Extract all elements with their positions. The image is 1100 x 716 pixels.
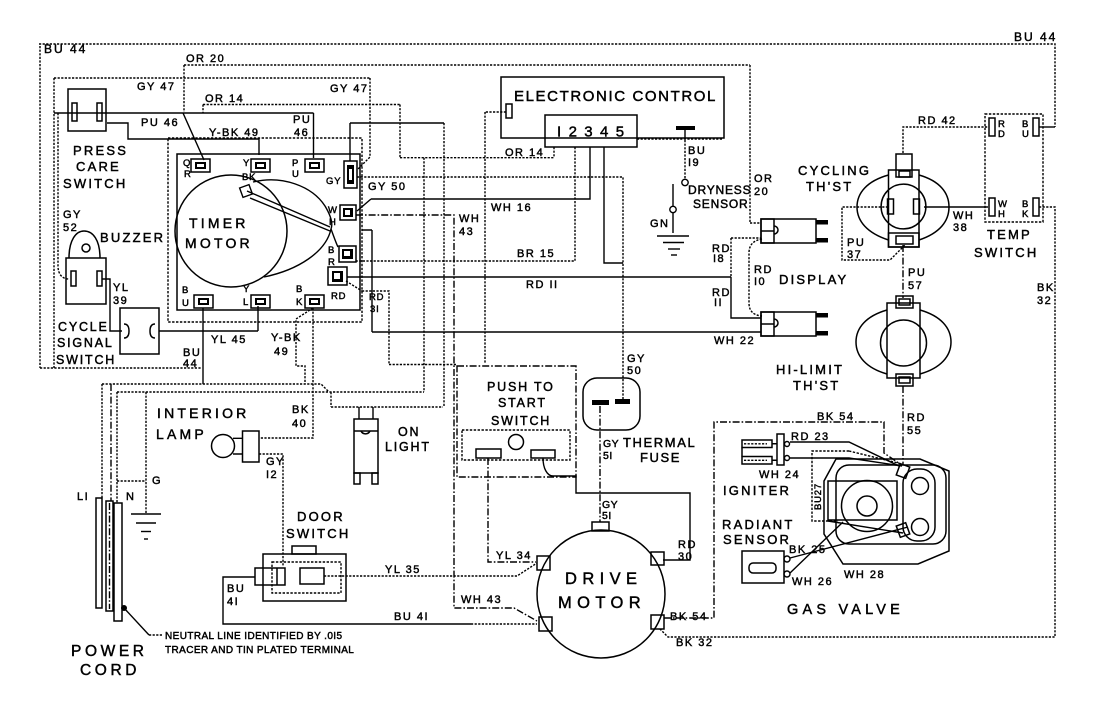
svg-text:PUSH TO: PUSH TO — [487, 380, 555, 394]
wire GY 51 — [599, 406, 601, 522]
svg-text:B: B — [296, 284, 303, 295]
wire left border BU44 — [40, 46, 202, 368]
svg-text:W: W — [328, 205, 338, 216]
wire RD 30 — [543, 458, 690, 560]
svg-text:L: L — [243, 297, 249, 308]
svg-text:LI: LI — [77, 491, 89, 503]
electronic control connector box — [545, 115, 637, 147]
gas valve outer body — [824, 459, 949, 564]
gas valve coil — [842, 481, 893, 532]
svg-text:WH 43: WH 43 — [461, 594, 502, 606]
svg-text:RD 42: RD 42 — [918, 115, 957, 127]
cycling thermostat — [857, 154, 949, 247]
svg-text:PU: PU — [293, 114, 311, 126]
ground GN — [657, 236, 689, 255]
press care switch box — [68, 89, 106, 131]
wire pin2 BR 15 — [356, 147, 575, 261]
svg-text:ELECTRONIC CONTROL: ELECTRONIC CONTROL — [514, 88, 717, 105]
svg-text:OR 14: OR 14 — [505, 147, 544, 159]
svg-text:SENSOR: SENSOR — [723, 532, 791, 547]
svg-text:GY: GY — [603, 438, 619, 450]
svg-text:Y-BK: Y-BK — [271, 332, 302, 344]
svg-text:THERMAL: THERMAL — [623, 435, 696, 450]
svg-text:INTERIOR: INTERIOR — [157, 405, 250, 421]
svg-text:WH 22: WH 22 — [714, 335, 755, 347]
timer terminal B/K — [305, 295, 324, 308]
temp switch box — [985, 114, 1043, 222]
coil dotted box BU27 — [812, 451, 902, 521]
wire WH 43 vertical — [356, 215, 537, 621]
radiant sensor — [742, 551, 790, 583]
svg-text:BU 44: BU 44 — [1014, 30, 1057, 44]
svg-text:RD: RD — [369, 292, 384, 303]
svg-text:U: U — [1022, 129, 1030, 140]
wire GY 52 — [58, 113, 69, 279]
wire BU 44 from B/U terminal — [202, 308, 204, 384]
wire YL 35 — [324, 563, 537, 576]
svg-text:LAMP: LAMP — [156, 426, 207, 442]
svg-text:SENSOR: SENSOR — [693, 197, 748, 211]
timer terminal B/R — [339, 246, 356, 262]
svg-text:OR: OR — [754, 173, 774, 185]
svg-text:YL 35: YL 35 — [385, 564, 421, 576]
svg-text:SWITCH: SWITCH — [491, 414, 551, 428]
wire ground bus y392 — [117, 391, 424, 393]
wire GY 12 — [259, 454, 283, 566]
timer terminal GY — [344, 161, 357, 188]
wire YL 45 — [159, 306, 258, 331]
timer terminal Q/R — [191, 159, 210, 172]
svg-text:5I: 5I — [603, 450, 613, 462]
svg-text:GY 47: GY 47 — [137, 81, 176, 93]
svg-text:CYCLE: CYCLE — [58, 320, 109, 334]
svg-text:MOTOR: MOTOR — [558, 594, 646, 612]
wire on-light bus — [331, 392, 443, 407]
svg-text:I8: I8 — [713, 253, 725, 265]
svg-text:BK 54: BK 54 — [670, 611, 707, 623]
svg-text:37: 37 — [847, 249, 862, 261]
wire BU 19 — [684, 140, 686, 179]
hi-limit thermostat — [856, 296, 951, 386]
svg-text:GN: GN — [650, 218, 670, 230]
svg-text:DISPLAY: DISPLAY — [779, 272, 848, 287]
svg-text:DOOR: DOOR — [297, 509, 345, 524]
svg-text:RD: RD — [907, 412, 926, 424]
svg-text:44: 44 — [183, 358, 198, 370]
wire Y-BK 49 top — [107, 123, 259, 155]
svg-text:YL 34: YL 34 — [496, 550, 532, 562]
cycle signal switch box — [120, 308, 159, 354]
svg-text:BK: BK — [242, 172, 256, 183]
timer motor circle — [175, 175, 287, 287]
svg-text:BU 44: BU 44 — [44, 42, 87, 56]
svg-text:K: K — [296, 297, 303, 308]
wire neutral bus y384 — [102, 384, 329, 392]
interior lamp — [212, 431, 260, 462]
svg-text:B: B — [328, 245, 335, 256]
svg-text:WH 16: WH 16 — [491, 202, 532, 214]
svg-text:FUSE: FUSE — [640, 450, 681, 465]
svg-text:NEUTRAL LINE IDENTIFIED BY .0I: NEUTRAL LINE IDENTIFIED BY .0I5 — [165, 631, 342, 642]
svg-text:K: K — [1022, 209, 1029, 220]
svg-text:CARE: CARE — [76, 159, 121, 174]
svg-text:BU: BU — [688, 145, 706, 157]
wire RD 10 bracket — [749, 239, 762, 316]
timer terminal RD — [328, 267, 347, 285]
wire BU 41 — [223, 577, 471, 624]
gas valve inner body — [836, 465, 946, 544]
svg-text:32: 32 — [1037, 295, 1052, 307]
svg-text:DRIVE: DRIVE — [565, 570, 642, 588]
wire RD 42 — [903, 127, 988, 153]
svg-text:OR 20: OR 20 — [186, 53, 225, 65]
svg-text:OR 14: OR 14 — [205, 93, 244, 105]
temp switch terminal RD — [989, 118, 1006, 140]
svg-text:I2345: I2345 — [557, 124, 632, 141]
svg-text:50: 50 — [627, 365, 642, 377]
svg-text:4I: 4I — [227, 596, 239, 608]
svg-text:I0: I0 — [754, 276, 766, 288]
wire RD 23 — [790, 442, 899, 466]
svg-text:TRACER AND TIN PLATED TERMINAL: TRACER AND TIN PLATED TERMINAL — [165, 645, 354, 656]
svg-text:BUZZER: BUZZER — [100, 230, 165, 245]
wire YL 34 — [488, 458, 536, 562]
wire PU 57 — [902, 245, 904, 298]
svg-text:U: U — [292, 169, 300, 180]
svg-text:I9: I9 — [688, 157, 700, 169]
drive motor — [537, 522, 665, 658]
gas valve solenoid capsule — [896, 464, 935, 541]
electronic control box — [501, 77, 724, 138]
door switch — [255, 546, 346, 601]
timer terminal W/H — [340, 205, 356, 220]
wire feed drop x444 — [443, 123, 445, 407]
svg-text:LIGHT: LIGHT — [385, 440, 431, 454]
svg-text:YL 45: YL 45 — [211, 334, 247, 346]
svg-text:55: 55 — [907, 425, 922, 437]
svg-text:RD: RD — [754, 264, 773, 276]
svg-text:BK: BK — [292, 404, 310, 416]
svg-text:BU: BU — [227, 583, 245, 595]
svg-text:SIGNAL: SIGNAL — [57, 336, 114, 350]
wire WH 28 — [828, 521, 903, 533]
timer terminal P/U — [305, 159, 324, 172]
svg-text:H: H — [998, 209, 1006, 220]
svg-text:Y: Y — [243, 284, 250, 295]
svg-text:RD II: RD II — [526, 279, 559, 291]
svg-text:GY: GY — [627, 353, 646, 365]
svg-text:N: N — [126, 491, 135, 503]
svg-text:GY: GY — [63, 209, 82, 221]
svg-text:TH'ST: TH'ST — [806, 179, 853, 194]
svg-text:39: 39 — [113, 295, 128, 307]
wire press care y113 — [54, 113, 314, 160]
svg-text:20: 20 — [754, 186, 769, 198]
wire BK 32 — [660, 207, 1055, 637]
svg-text:RADIANT: RADIANT — [722, 517, 794, 532]
svg-text:START: START — [498, 396, 547, 410]
svg-text:PU 46: PU 46 — [141, 117, 179, 129]
electronic control left terminal — [506, 104, 512, 118]
svg-text:BU 4I: BU 4I — [394, 611, 429, 623]
svg-text:RD 23: RD 23 — [791, 431, 830, 443]
wire BK 25 — [790, 527, 908, 558]
wire OR 20 — [184, 65, 761, 223]
dryness sensor contact lower — [670, 184, 676, 233]
wire N drop — [110, 384, 112, 501]
svg-text:RD: RD — [678, 539, 697, 551]
svg-text:BK 32: BK 32 — [676, 637, 713, 649]
wire GY 50 from timer — [357, 177, 623, 399]
wire WH to EC terminal — [485, 112, 506, 364]
timer terminal Y/BK — [251, 159, 270, 172]
svg-text:CYCLING: CYCLING — [798, 163, 871, 178]
push to start switch — [457, 366, 576, 477]
coil frame — [828, 481, 897, 520]
wire L1 drop — [101, 384, 103, 498]
svg-text:U: U — [182, 298, 190, 309]
power cord conductors — [96, 498, 162, 635]
wire RD 31 — [346, 281, 457, 365]
wire GY 47 — [54, 78, 370, 368]
svg-text:YL: YL — [113, 282, 129, 294]
svg-text:SWITCH: SWITCH — [974, 245, 1038, 260]
svg-text:TH'ST: TH'ST — [793, 378, 840, 393]
buzzer — [66, 231, 106, 304]
thermal fuse — [583, 378, 640, 430]
svg-text:Q: Q — [183, 158, 191, 169]
svg-text:R: R — [184, 169, 192, 180]
svg-text:GY 50: GY 50 — [368, 181, 407, 193]
wire BK 54 — [664, 422, 900, 618]
svg-text:GY 47: GY 47 — [330, 83, 369, 95]
svg-text:PU: PU — [908, 267, 926, 279]
svg-text:IGNITER: IGNITER — [723, 483, 791, 498]
svg-text:57: 57 — [908, 280, 923, 292]
svg-text:40: 40 — [292, 418, 307, 430]
svg-text:GAS VALVE: GAS VALVE — [787, 602, 904, 618]
svg-text:49: 49 — [274, 346, 289, 358]
svg-text:B: B — [182, 285, 189, 296]
svg-text:SWITCH: SWITCH — [286, 526, 350, 541]
svg-text:GY: GY — [326, 176, 341, 187]
svg-text:Y-BK 49: Y-BK 49 — [209, 127, 259, 139]
svg-text:CORD: CORD — [80, 662, 140, 679]
wire WH 38 — [924, 206, 988, 208]
svg-text:46: 46 — [294, 127, 309, 139]
svg-text:G: G — [152, 475, 162, 487]
temp switch terminal WH — [989, 198, 1008, 220]
timer outer box — [168, 138, 362, 322]
svg-text:II: II — [714, 297, 723, 309]
wire pin3 WH 16 — [357, 147, 590, 211]
svg-text:WH 28: WH 28 — [844, 569, 885, 581]
wire WH 24 — [789, 458, 902, 466]
svg-text:SWITCH: SWITCH — [56, 353, 116, 367]
igniter body — [777, 434, 790, 465]
svg-text:Y: Y — [243, 158, 250, 169]
wire G drop — [117, 392, 146, 513]
display lower connector — [761, 312, 828, 336]
svg-text:30: 30 — [678, 551, 693, 563]
svg-text:SWITCH: SWITCH — [63, 176, 127, 191]
wire RD 55 — [902, 386, 904, 465]
wire WH 22 — [362, 230, 761, 332]
svg-text:P: P — [292, 158, 299, 169]
svg-text:WH: WH — [459, 213, 480, 225]
timer inner box — [177, 154, 360, 310]
wire pin5 to dryness — [637, 138, 723, 140]
svg-text:DRYNESS: DRYNESS — [688, 183, 751, 197]
svg-text:WH 26: WH 26 — [792, 576, 833, 588]
svg-text:52: 52 — [63, 222, 78, 234]
wire PU 37 — [842, 207, 905, 260]
wire RD 18 — [731, 238, 761, 277]
svg-text:BK 25: BK 25 — [789, 544, 826, 556]
svg-text:38: 38 — [953, 222, 968, 234]
wire YL 39 — [102, 279, 122, 331]
wire BU 44 top bus — [39, 44, 1055, 127]
dryness sensor contact upper — [682, 179, 688, 185]
wire BK 40 — [259, 308, 313, 438]
svg-text:I2: I2 — [266, 469, 278, 481]
temp switch terminal BK — [1022, 198, 1039, 220]
igniter element — [742, 440, 772, 448]
timer terminal Y/L — [251, 295, 270, 308]
svg-text:5I: 5I — [602, 510, 612, 522]
svg-text:HI-LIMIT: HI-LIMIT — [776, 362, 844, 377]
svg-text:BK: BK — [1037, 282, 1055, 294]
wire PU 46 to P/U — [313, 113, 315, 158]
svg-text:PRESS: PRESS — [73, 143, 128, 158]
svg-text:BR 15: BR 15 — [517, 248, 555, 260]
wire WH 26 — [790, 522, 843, 573]
svg-text:MOTOR: MOTOR — [185, 235, 253, 251]
svg-text:POWER: POWER — [71, 643, 148, 660]
svg-text:WH: WH — [953, 210, 974, 222]
svg-text:TIMER: TIMER — [189, 215, 249, 231]
svg-text:ON: ON — [398, 425, 420, 439]
ground symbol power — [131, 514, 161, 539]
svg-text:TEMP: TEMP — [987, 227, 1032, 242]
wire Y-BK 49 bottom diagonal — [296, 308, 313, 384]
timer cam curves — [240, 180, 338, 277]
dryness sensor plate — [676, 126, 695, 139]
svg-text:WH 24: WH 24 — [759, 469, 800, 481]
svg-text:BU27: BU27 — [813, 483, 824, 510]
temp switch terminal BU — [1022, 118, 1039, 140]
svg-text:GY: GY — [266, 456, 285, 468]
svg-text:D: D — [998, 129, 1006, 140]
wire GY47 feed to on-light column — [350, 123, 444, 161]
svg-text:43: 43 — [459, 226, 474, 238]
svg-text:H: H — [329, 217, 337, 228]
wire pin4 — [604, 147, 623, 263]
svg-text:PU: PU — [847, 237, 865, 249]
on light lamp — [354, 407, 378, 484]
timer terminal B/U — [194, 295, 213, 308]
svg-text:BK 54: BK 54 — [817, 411, 854, 423]
wire OR 14 — [203, 105, 554, 393]
display upper connector — [761, 219, 828, 243]
wire RD 11 — [347, 277, 761, 318]
svg-text:RD: RD — [331, 291, 346, 302]
